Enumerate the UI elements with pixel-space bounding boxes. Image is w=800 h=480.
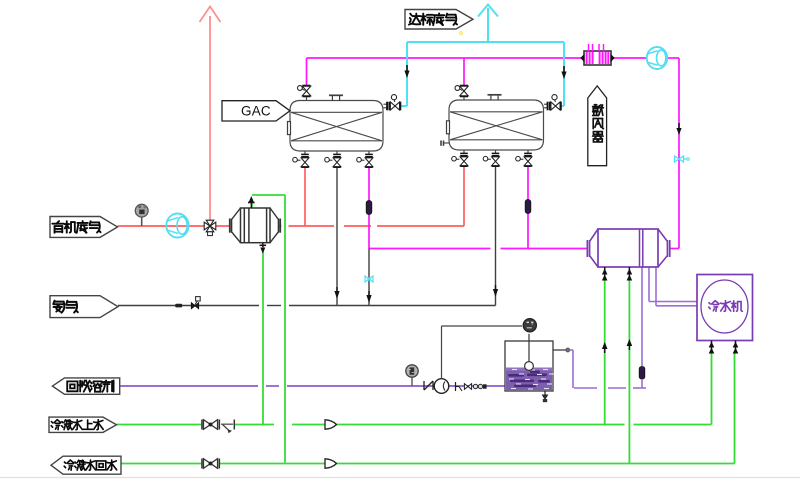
svg-text:GAC: GAC: [241, 104, 271, 119]
